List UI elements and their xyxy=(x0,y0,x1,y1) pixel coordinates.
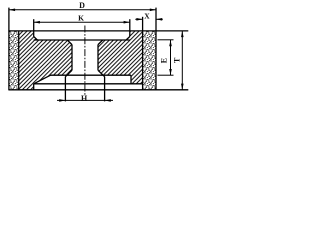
abrasive boundary left xyxy=(18,31,20,90)
bore entry chamfer left xyxy=(67,40,72,45)
svg-text:E: E xyxy=(160,58,169,63)
bore bottom flare chamfer right xyxy=(98,70,105,76)
abrasive rim left (stippled) xyxy=(9,31,19,90)
svg-text:D: D xyxy=(79,1,85,10)
E bottom extension line xyxy=(158,74,174,76)
bore left edge + H extension line xyxy=(71,45,73,71)
wheel top edge + T top extension line xyxy=(8,30,188,32)
svg-text:K: K xyxy=(78,14,84,23)
wheel bottom edge + T bottom extension line xyxy=(8,89,188,91)
dimension line H (arrows outside) xyxy=(57,99,113,101)
bore bottom flare chamfer left xyxy=(65,70,72,76)
core left (hatched) xyxy=(19,31,72,90)
E top extension line xyxy=(158,39,174,41)
cavity floor xyxy=(51,74,132,76)
cavity right wall xyxy=(130,75,132,84)
dimension line X (arrows outside) xyxy=(135,18,142,20)
cavity slant wall xyxy=(34,75,51,84)
recess left wall + K extension line xyxy=(33,19,35,36)
abrasive rim right (stippled) xyxy=(143,31,156,90)
bottom hole wall right + H extension line xyxy=(104,77,106,102)
recess corner chamfer left xyxy=(34,37,38,41)
wheel right edge + D/X right extension line xyxy=(155,8,157,90)
svg-text:T: T xyxy=(172,57,181,63)
centerline xyxy=(84,26,86,96)
dimension line K xyxy=(34,21,130,23)
bottom step left wall xyxy=(33,84,35,90)
dimension line T xyxy=(181,31,183,90)
core right (hatched) xyxy=(98,31,143,84)
dimension line D xyxy=(9,9,156,11)
wheel left edge + D left extension line xyxy=(8,8,10,90)
dimension line E xyxy=(170,40,172,75)
abrasive boundary right + X extension line xyxy=(142,17,144,90)
recess corner chamfer right xyxy=(126,37,130,41)
bottom step line xyxy=(34,83,143,85)
svg-text:H: H xyxy=(81,94,88,103)
recess floor xyxy=(34,39,130,41)
svg-text:X: X xyxy=(144,12,150,21)
recess right wall + K extension line xyxy=(129,19,131,36)
bore right edge + H extension line xyxy=(97,45,99,71)
bore entry chamfer right xyxy=(98,40,103,45)
bottom hole wall left + H extension line xyxy=(64,77,66,102)
